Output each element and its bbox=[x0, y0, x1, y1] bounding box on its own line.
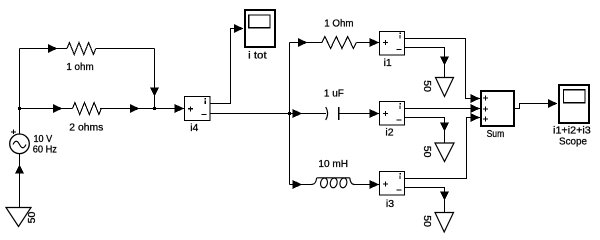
arrow into scope bbox=[548, 99, 558, 108]
arrow on branch R3 bbox=[298, 38, 308, 47]
arrow i2 minus (down) bbox=[440, 122, 449, 131]
arrow on second branch 2 bbox=[130, 104, 140, 113]
wire i2 minus to gain bbox=[405, 118, 445, 144]
svg-text:i2: i2 bbox=[385, 127, 393, 139]
arrow into scope i tot bbox=[234, 24, 244, 33]
gain 50 left bbox=[6, 208, 38, 227]
arrow on branch C bbox=[293, 109, 303, 118]
node junction dot left bbox=[18, 107, 21, 110]
current meter i1 bbox=[380, 32, 405, 69]
wire top branch horizontal bbox=[20, 48, 155, 50]
svg-text:1 ohm: 1 ohm bbox=[66, 61, 94, 73]
label 1 ohm bbox=[66, 61, 94, 73]
svg-text:i1: i1 bbox=[384, 57, 392, 69]
svg-text:1 Ohm: 1 Ohm bbox=[324, 18, 354, 30]
wire left vertical bbox=[19, 49, 21, 135]
svg-text:i tot: i tot bbox=[248, 49, 267, 61]
arrow into i3 bbox=[370, 180, 380, 189]
wire branch R3 bbox=[290, 42, 380, 44]
arrow into i1 bbox=[370, 38, 380, 47]
arrow into Sum input1 bbox=[471, 94, 481, 103]
sum block Sum bbox=[481, 91, 514, 140]
wire i1 i-out to Sum bbox=[405, 39, 480, 99]
scope i1+i2+i3 bbox=[553, 85, 591, 148]
AC source 10V 60Hz bbox=[10, 130, 30, 154]
capacitor 1 uF bbox=[326, 107, 339, 120]
resistor 1 ohm bbox=[67, 43, 96, 55]
arrow on top branch bbox=[48, 44, 58, 53]
label 1 uF bbox=[324, 88, 344, 100]
gain 50 under i1 bbox=[421, 78, 454, 97]
svg-text:2 ohms: 2 ohms bbox=[69, 122, 103, 134]
wire i2 i-out to Sum bbox=[405, 108, 480, 110]
wire i3 i-out to Sum bbox=[405, 118, 480, 179]
svg-text:50: 50 bbox=[421, 80, 433, 92]
wire second branch horizontal bbox=[20, 108, 185, 110]
svg-text:50: 50 bbox=[421, 146, 433, 158]
wire branch inductor bbox=[290, 184, 380, 186]
wire source to gain bbox=[19, 154, 21, 208]
wire i3 minus to gain bbox=[405, 188, 445, 214]
svg-text:i3: i3 bbox=[386, 198, 394, 210]
label 1 Ohm bbox=[324, 18, 354, 30]
label 2 ohms bbox=[69, 122, 103, 134]
wire i4 i-out to scope i tot bbox=[210, 29, 243, 104]
arrow into Sum input3 bbox=[471, 113, 481, 122]
arrow into junction (down) bbox=[150, 87, 159, 96]
wire i1 minus to gain bbox=[405, 48, 445, 79]
svg-text:Sum: Sum bbox=[487, 128, 505, 140]
svg-text:50: 50 bbox=[26, 212, 38, 224]
svg-text:60 Hz: 60 Hz bbox=[33, 144, 57, 156]
wire split vertical bbox=[289, 43, 291, 185]
arrow into source (up) bbox=[15, 165, 24, 174]
current meter i2 bbox=[380, 102, 405, 139]
wire top branch drop to junction bbox=[154, 49, 156, 109]
arrow i3 minus (down) bbox=[440, 191, 449, 200]
label 10 mH bbox=[318, 158, 348, 170]
resistor 2 ohms bbox=[73, 103, 102, 115]
resistor 1 Ohm bbox=[322, 37, 356, 49]
arrow into i2 bbox=[370, 109, 380, 118]
label 10 V 60 Hz bbox=[33, 133, 57, 156]
arrow on second branch 1 bbox=[53, 104, 63, 113]
wire i4 minus-out to split node bbox=[210, 113, 290, 115]
wire Sum out to scope bbox=[515, 104, 558, 109]
arrow into i4 bbox=[175, 104, 185, 113]
current meter i3 bbox=[380, 172, 405, 210]
wire branch capacitor bbox=[290, 113, 380, 115]
svg-text:1 uF: 1 uF bbox=[324, 88, 344, 100]
arrow i1 minus (down) bbox=[440, 56, 449, 65]
node junction dot mid bbox=[153, 107, 156, 110]
svg-text:i4: i4 bbox=[190, 122, 198, 134]
svg-text:Scope: Scope bbox=[559, 136, 587, 148]
node split dot bbox=[288, 112, 291, 115]
svg-text:10 mH: 10 mH bbox=[318, 158, 348, 170]
arrow into Sum input2 bbox=[471, 104, 481, 113]
inductor 10 mH bbox=[312, 177, 355, 188]
svg-text:50: 50 bbox=[421, 215, 433, 227]
arrow on branch L bbox=[293, 180, 303, 189]
gain 50 under i3 bbox=[421, 213, 454, 233]
scope i tot bbox=[245, 10, 275, 61]
current meter i4 bbox=[185, 97, 211, 135]
gain 50 under i2 bbox=[421, 143, 454, 162]
